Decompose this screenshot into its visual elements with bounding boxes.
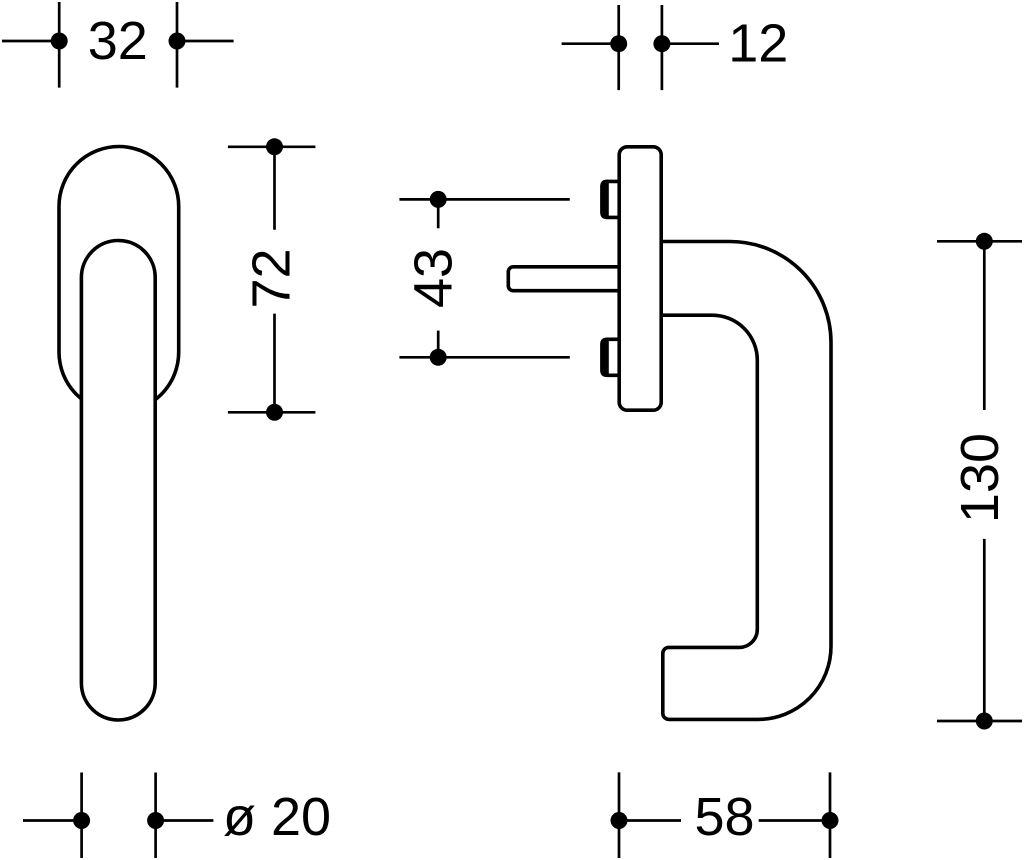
dimension 72 upper segment [273,147,276,230]
dimension 130 bottom leader line [937,720,1022,723]
dimension 58 left leader line [619,819,681,822]
dimension dia 20 left extension line [80,773,83,859]
side view plate [619,147,661,410]
dimension 32 right leader line [177,40,234,43]
dimension 58 right extension line [829,772,832,858]
dimension 12 left extension line [617,5,620,90]
dimension 43 bottom leader line [399,356,569,359]
dimension 43 top dot [430,191,447,208]
dimension dia 20 right dot [147,812,164,829]
dimension 12 right leader line [662,42,719,45]
dimension 58 right dot [822,812,839,829]
bottom screw head rim [600,338,609,377]
dimension 32 right dot [169,33,186,50]
dimension dia 20 left dot [73,812,90,829]
top screw head [602,181,620,217]
svg-text:12: 12 [728,14,788,74]
spindle [508,267,619,291]
dimension 12 left dot [610,35,627,52]
dimension 130 top dot [976,233,993,250]
side view handle outline [661,242,831,720]
dimension 72 top dot [266,138,283,155]
dimension 72 lower segment [273,314,276,413]
front view handle grip [81,241,155,721]
dimension dia 20 right extension line [154,773,157,859]
dimension 43 upper segment [437,199,440,228]
dimension 32 left leader line [2,40,59,43]
dimension 12 left leader line [562,42,619,45]
dimension 43 bottom dot [430,349,447,366]
dimension 72 bottom leader line [228,411,316,414]
dimension 58 right leader line [759,819,830,822]
top screw head rim [600,180,609,219]
dimension 130 lower segment [983,539,986,721]
dimension 43 lower segment [437,331,440,358]
dimension 58 left dot [611,812,628,829]
svg-text:72: 72 [242,248,302,308]
dimension dia 20 right leader line [156,819,214,822]
dimension 12 right dot [653,35,670,52]
svg-text:43: 43 [404,248,464,308]
dimension 130 top leader line [937,240,1022,243]
dimension 58 left extension line [618,772,621,858]
front view rosette outline [59,147,179,413]
dimension 72 bottom dot [266,404,283,421]
svg-text:ø 20: ø 20 [223,787,331,847]
dimension 72 top leader line [228,145,316,148]
dimension 43 top leader line [399,198,569,201]
dimension 32 left extension line [58,2,61,88]
dimension 130 upper segment [983,241,986,410]
dimension 32 left dot [51,33,68,50]
dimension 32 right extension line [176,2,179,88]
bottom screw head [602,339,620,375]
dimension 130 bottom dot [976,713,993,730]
svg-text:130: 130 [950,433,1010,523]
svg-text:32: 32 [88,11,148,71]
svg-text:58: 58 [694,787,754,847]
dimension 12 right extension line [661,5,664,90]
dimension dia 20 left leader line [23,819,82,822]
